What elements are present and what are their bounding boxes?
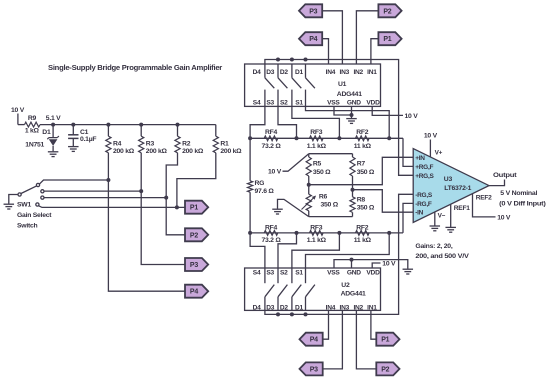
svg-text:SW1: SW1: [17, 201, 31, 208]
svg-text:200, and 500 V/V: 200, and 500 V/V: [415, 253, 469, 260]
svg-text:IN4: IN4: [326, 305, 336, 312]
svg-text:-RG,S: -RG,S: [415, 192, 433, 199]
svg-text:(0 V Diff Input): (0 V Diff Input): [499, 201, 545, 208]
svg-text:IN1: IN1: [367, 69, 377, 76]
svg-text:-RG,F: -RG,F: [415, 201, 432, 208]
svg-text:RF4: RF4: [265, 129, 278, 136]
svg-text:D2: D2: [280, 305, 289, 312]
svg-text:S3: S3: [266, 269, 274, 276]
svg-text:R9: R9: [28, 115, 37, 122]
svg-text:D1: D1: [295, 69, 304, 76]
svg-text:IN4: IN4: [326, 69, 336, 76]
svg-text:VSS: VSS: [327, 269, 340, 276]
svg-text:P3: P3: [309, 8, 317, 15]
svg-text:1N751: 1N751: [25, 141, 44, 148]
svg-text:RF3: RF3: [310, 224, 323, 231]
svg-text:Single-Supply Bridge Programma: Single-Supply Bridge Programmable Gain A…: [48, 63, 222, 72]
svg-text:S4: S4: [253, 100, 261, 107]
svg-text:D2: D2: [280, 69, 289, 76]
svg-text:IN2: IN2: [353, 305, 363, 312]
svg-text:D1: D1: [42, 129, 51, 136]
svg-text:ADG441: ADG441: [337, 91, 362, 98]
svg-text:+IN: +IN: [415, 155, 425, 162]
svg-text:P1: P1: [383, 36, 391, 43]
svg-text:P1: P1: [190, 205, 198, 212]
svg-text:P1: P1: [381, 337, 389, 344]
svg-text:1 kΩ: 1 kΩ: [25, 128, 40, 135]
svg-text:10 V: 10 V: [268, 169, 282, 176]
svg-text:Switch: Switch: [17, 223, 38, 230]
svg-text:10 V: 10 V: [424, 133, 438, 140]
svg-text:GND: GND: [347, 269, 361, 276]
svg-text:IN1: IN1: [367, 305, 377, 312]
svg-text:S3: S3: [266, 100, 274, 107]
svg-text:LT6372-1: LT6372-1: [444, 185, 471, 192]
svg-text:Output: Output: [493, 172, 517, 179]
svg-text:D1: D1: [295, 305, 304, 312]
svg-text:73.2 Ω: 73.2 Ω: [261, 237, 281, 244]
svg-text:S1: S1: [295, 269, 303, 276]
svg-text:5 V Nominal: 5 V Nominal: [500, 190, 537, 197]
svg-text:S1: S1: [295, 100, 303, 107]
svg-text:1.1 kΩ: 1.1 kΩ: [307, 237, 327, 244]
svg-text:ADG441: ADG441: [341, 291, 366, 298]
svg-text:73.2 Ω: 73.2 Ω: [261, 143, 281, 150]
svg-text:P4: P4: [309, 36, 317, 43]
svg-text:U2: U2: [341, 282, 350, 289]
svg-text:IN3: IN3: [340, 305, 350, 312]
svg-text:10 V: 10 V: [497, 214, 511, 221]
svg-text:350 Ω: 350 Ω: [321, 202, 339, 209]
svg-text:VDD: VDD: [366, 269, 380, 276]
svg-text:P4: P4: [190, 289, 198, 296]
svg-text:+RG,S: +RG,S: [415, 173, 434, 180]
svg-text:200 kΩ: 200 kΩ: [146, 148, 168, 155]
svg-text:D4: D4: [253, 69, 262, 76]
svg-text:REF2: REF2: [476, 195, 492, 202]
svg-text:R8: R8: [357, 197, 366, 204]
svg-text:P3: P3: [190, 262, 198, 269]
svg-text:RF2: RF2: [356, 224, 369, 231]
svg-text:+RG,F: +RG,F: [415, 164, 433, 171]
svg-text:GND: GND: [347, 100, 361, 107]
svg-text:1.1 kΩ: 1.1 kΩ: [307, 143, 327, 150]
svg-text:P2: P2: [381, 366, 389, 373]
svg-text:U1: U1: [338, 81, 347, 88]
svg-text:V−: V−: [438, 213, 446, 220]
svg-text:R5: R5: [313, 161, 322, 168]
svg-text:P2: P2: [190, 232, 198, 239]
svg-text:350 Ω: 350 Ω: [357, 205, 375, 212]
svg-text:200 kΩ: 200 kΩ: [182, 148, 204, 155]
svg-text:11 kΩ: 11 kΩ: [354, 237, 372, 244]
svg-text:R3: R3: [146, 140, 155, 147]
svg-text:S2: S2: [280, 100, 288, 107]
svg-text:D3: D3: [266, 69, 275, 76]
svg-text:350 Ω: 350 Ω: [313, 169, 331, 176]
svg-text:IN2: IN2: [353, 69, 363, 76]
svg-text:11 kΩ: 11 kΩ: [354, 143, 372, 150]
svg-text:R1: R1: [220, 140, 229, 147]
svg-text:REF1: REF1: [454, 205, 470, 212]
svg-text:RF2: RF2: [356, 129, 369, 136]
svg-text:D3: D3: [266, 305, 275, 312]
svg-text:RG: RG: [255, 180, 265, 187]
svg-text:10 V: 10 V: [405, 113, 419, 120]
svg-text:10 V: 10 V: [11, 107, 25, 114]
svg-text:5.1 V: 5.1 V: [46, 115, 61, 122]
svg-text:S2: S2: [280, 269, 288, 276]
svg-text:R6: R6: [319, 193, 328, 200]
svg-text:-IN: -IN: [415, 210, 423, 217]
svg-text:R2: R2: [182, 140, 191, 147]
svg-text:97.6 Ω: 97.6 Ω: [255, 188, 275, 195]
svg-text:V+: V+: [435, 149, 443, 156]
svg-text:350 Ω: 350 Ω: [357, 169, 375, 176]
svg-text:RF3: RF3: [310, 129, 323, 136]
svg-text:IN3: IN3: [340, 69, 350, 76]
svg-text:S4: S4: [253, 269, 261, 276]
svg-text:R7: R7: [357, 161, 366, 168]
svg-text:P3: P3: [310, 366, 318, 373]
svg-text:U3: U3: [444, 176, 453, 183]
svg-text:200 kΩ: 200 kΩ: [220, 148, 242, 155]
svg-text:Gains: 2, 20,: Gains: 2, 20,: [415, 243, 452, 250]
svg-text:200 kΩ: 200 kΩ: [113, 148, 135, 155]
svg-text:D4: D4: [253, 305, 262, 312]
svg-text:R4: R4: [113, 140, 122, 147]
svg-text:P2: P2: [383, 8, 391, 15]
svg-text:VSS: VSS: [327, 100, 340, 107]
svg-text:P4: P4: [310, 337, 318, 344]
svg-text:VDD: VDD: [366, 100, 380, 107]
svg-text:0.1µF: 0.1µF: [80, 136, 96, 143]
svg-text:RF4: RF4: [265, 224, 278, 231]
svg-text:10 V: 10 V: [382, 261, 396, 268]
svg-text:Gain Select: Gain Select: [17, 212, 52, 219]
